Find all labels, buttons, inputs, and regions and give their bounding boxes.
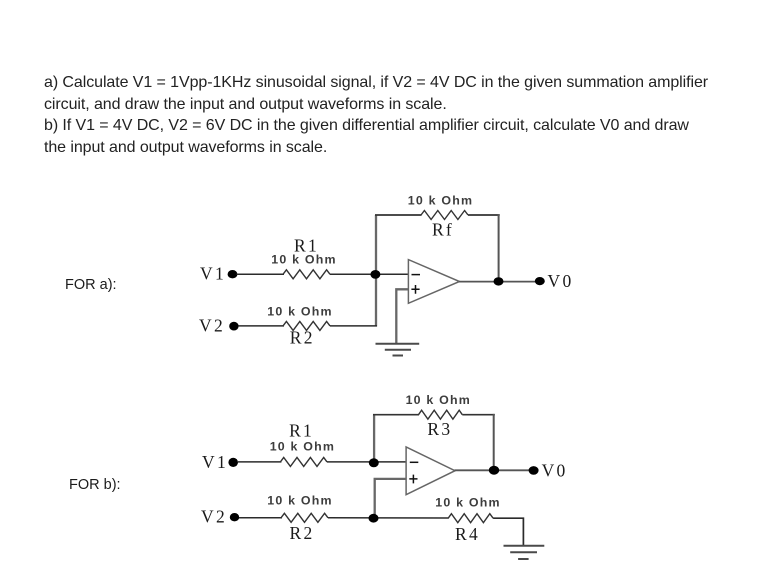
wire feedback top horizontal (circuit b) [373, 414, 419, 416]
label FOR a) [65, 277, 117, 293]
junction node at output (circuit b) [489, 466, 499, 475]
wire R2 to R4 through node (circuit b) [328, 517, 449, 519]
terminal dot V0 (circuit b) [529, 466, 539, 475]
svg-text:V1: V1 [202, 452, 228, 472]
wire Rf to output branch (circuit a) [468, 214, 500, 216]
svg-text:R3: R3 [427, 419, 452, 439]
minus sign at inverting input (circuit a) [412, 274, 421, 276]
wire vertical from feedback top to V2 line through node (circuit a) [375, 215, 377, 327]
junction node at non-inverting branch (circuit b) [369, 514, 379, 523]
wire V1 to R1 (circuit a) [237, 273, 285, 275]
resistor R4 (circuit b) [448, 514, 493, 523]
terminal dot V2 (circuit a) [229, 322, 238, 331]
resistor R2 (circuit a) [283, 321, 330, 330]
plus sign at non-inverting input (circuit a) [411, 285, 419, 294]
wire R4 to ground (circuit b) [493, 518, 523, 545]
wire R2 to summing node vertical (circuit a) [330, 325, 377, 327]
terminal dot V1 (circuit a) [228, 270, 238, 278]
wire vertical from feedback top to inverting node (circuit b) [373, 415, 375, 463]
svg-text:V2: V2 [199, 316, 225, 336]
problem statement text [44, 72, 708, 159]
ground (circuit b) [504, 546, 545, 559]
svg-text:10 k Ohm: 10 k Ohm [267, 305, 332, 319]
svg-text:Rf: Rf [432, 219, 454, 239]
resistor R1 (circuit a) [283, 270, 330, 279]
svg-text:V0: V0 [548, 271, 574, 291]
svg-text:R2: R2 [290, 328, 315, 348]
wire vertical feedback right down to output (circuit b) [493, 414, 495, 470]
resistor R3 (circuit b) [419, 410, 463, 419]
wire V2 to R2 (circuit a) [239, 325, 285, 327]
op-amp U2 (circuit b) [406, 447, 455, 495]
wire R1 to op-amp inverting input (circuit a) [330, 273, 409, 275]
minus sign at inverting input (circuit b) [410, 461, 419, 463]
svg-text:10 k Ohm: 10 k Ohm [406, 393, 471, 407]
wire vertical feedback right down to output (circuit a) [498, 214, 500, 281]
wire feedback top horizontal (circuit a) [375, 214, 422, 216]
svg-text:10 k Ohm: 10 k Ohm [271, 253, 336, 267]
op-amp U1 (circuit a) [408, 260, 459, 304]
wire op-amp output to V0 (circuit b) [455, 469, 530, 471]
resistor R2 (circuit b) [281, 513, 328, 522]
plus sign at non-inverting input (circuit b) [409, 475, 417, 484]
svg-text:V2: V2 [201, 507, 227, 527]
wire V2 to R2 (circuit b) [239, 517, 282, 519]
terminal dot V0 (circuit a) [535, 277, 545, 285]
wire V1 to R1 (circuit b) [238, 461, 281, 463]
junction node at inverting input (circuit b) [369, 458, 379, 467]
terminal dot V1 (circuit b) [228, 458, 238, 467]
svg-text:V1: V1 [200, 264, 226, 284]
junction node at inverting input (circuit a) [370, 270, 380, 279]
junction node at output (circuit a) [494, 277, 504, 285]
svg-text:V0: V0 [542, 461, 568, 481]
svg-text:R4: R4 [455, 524, 480, 544]
svg-text:10 k Ohm: 10 k Ohm [270, 440, 335, 454]
wire non-inverting input to ground (circuit a) [396, 289, 408, 343]
terminal dot V2 (circuit b) [230, 513, 239, 521]
svg-text:R2: R2 [289, 523, 314, 543]
wire R3 to output branch (circuit b) [462, 414, 495, 416]
wire R1 to op-amp inverting input (circuit b) [327, 461, 406, 463]
resistor Rf (circuit a) [421, 211, 468, 220]
ground (circuit a) [376, 344, 420, 356]
svg-text:10 k Ohm: 10 k Ohm [408, 194, 473, 208]
svg-text:R1: R1 [289, 420, 314, 440]
wire non-inverting input down to V2 node (circuit b) [375, 479, 406, 519]
label FOR b) [69, 477, 121, 493]
svg-text:10 k Ohm: 10 k Ohm [267, 494, 332, 508]
resistor R1 (circuit b) [280, 457, 327, 466]
svg-text:10 k Ohm: 10 k Ohm [435, 496, 500, 510]
wire op-amp output to V0 (circuit a) [459, 281, 535, 283]
